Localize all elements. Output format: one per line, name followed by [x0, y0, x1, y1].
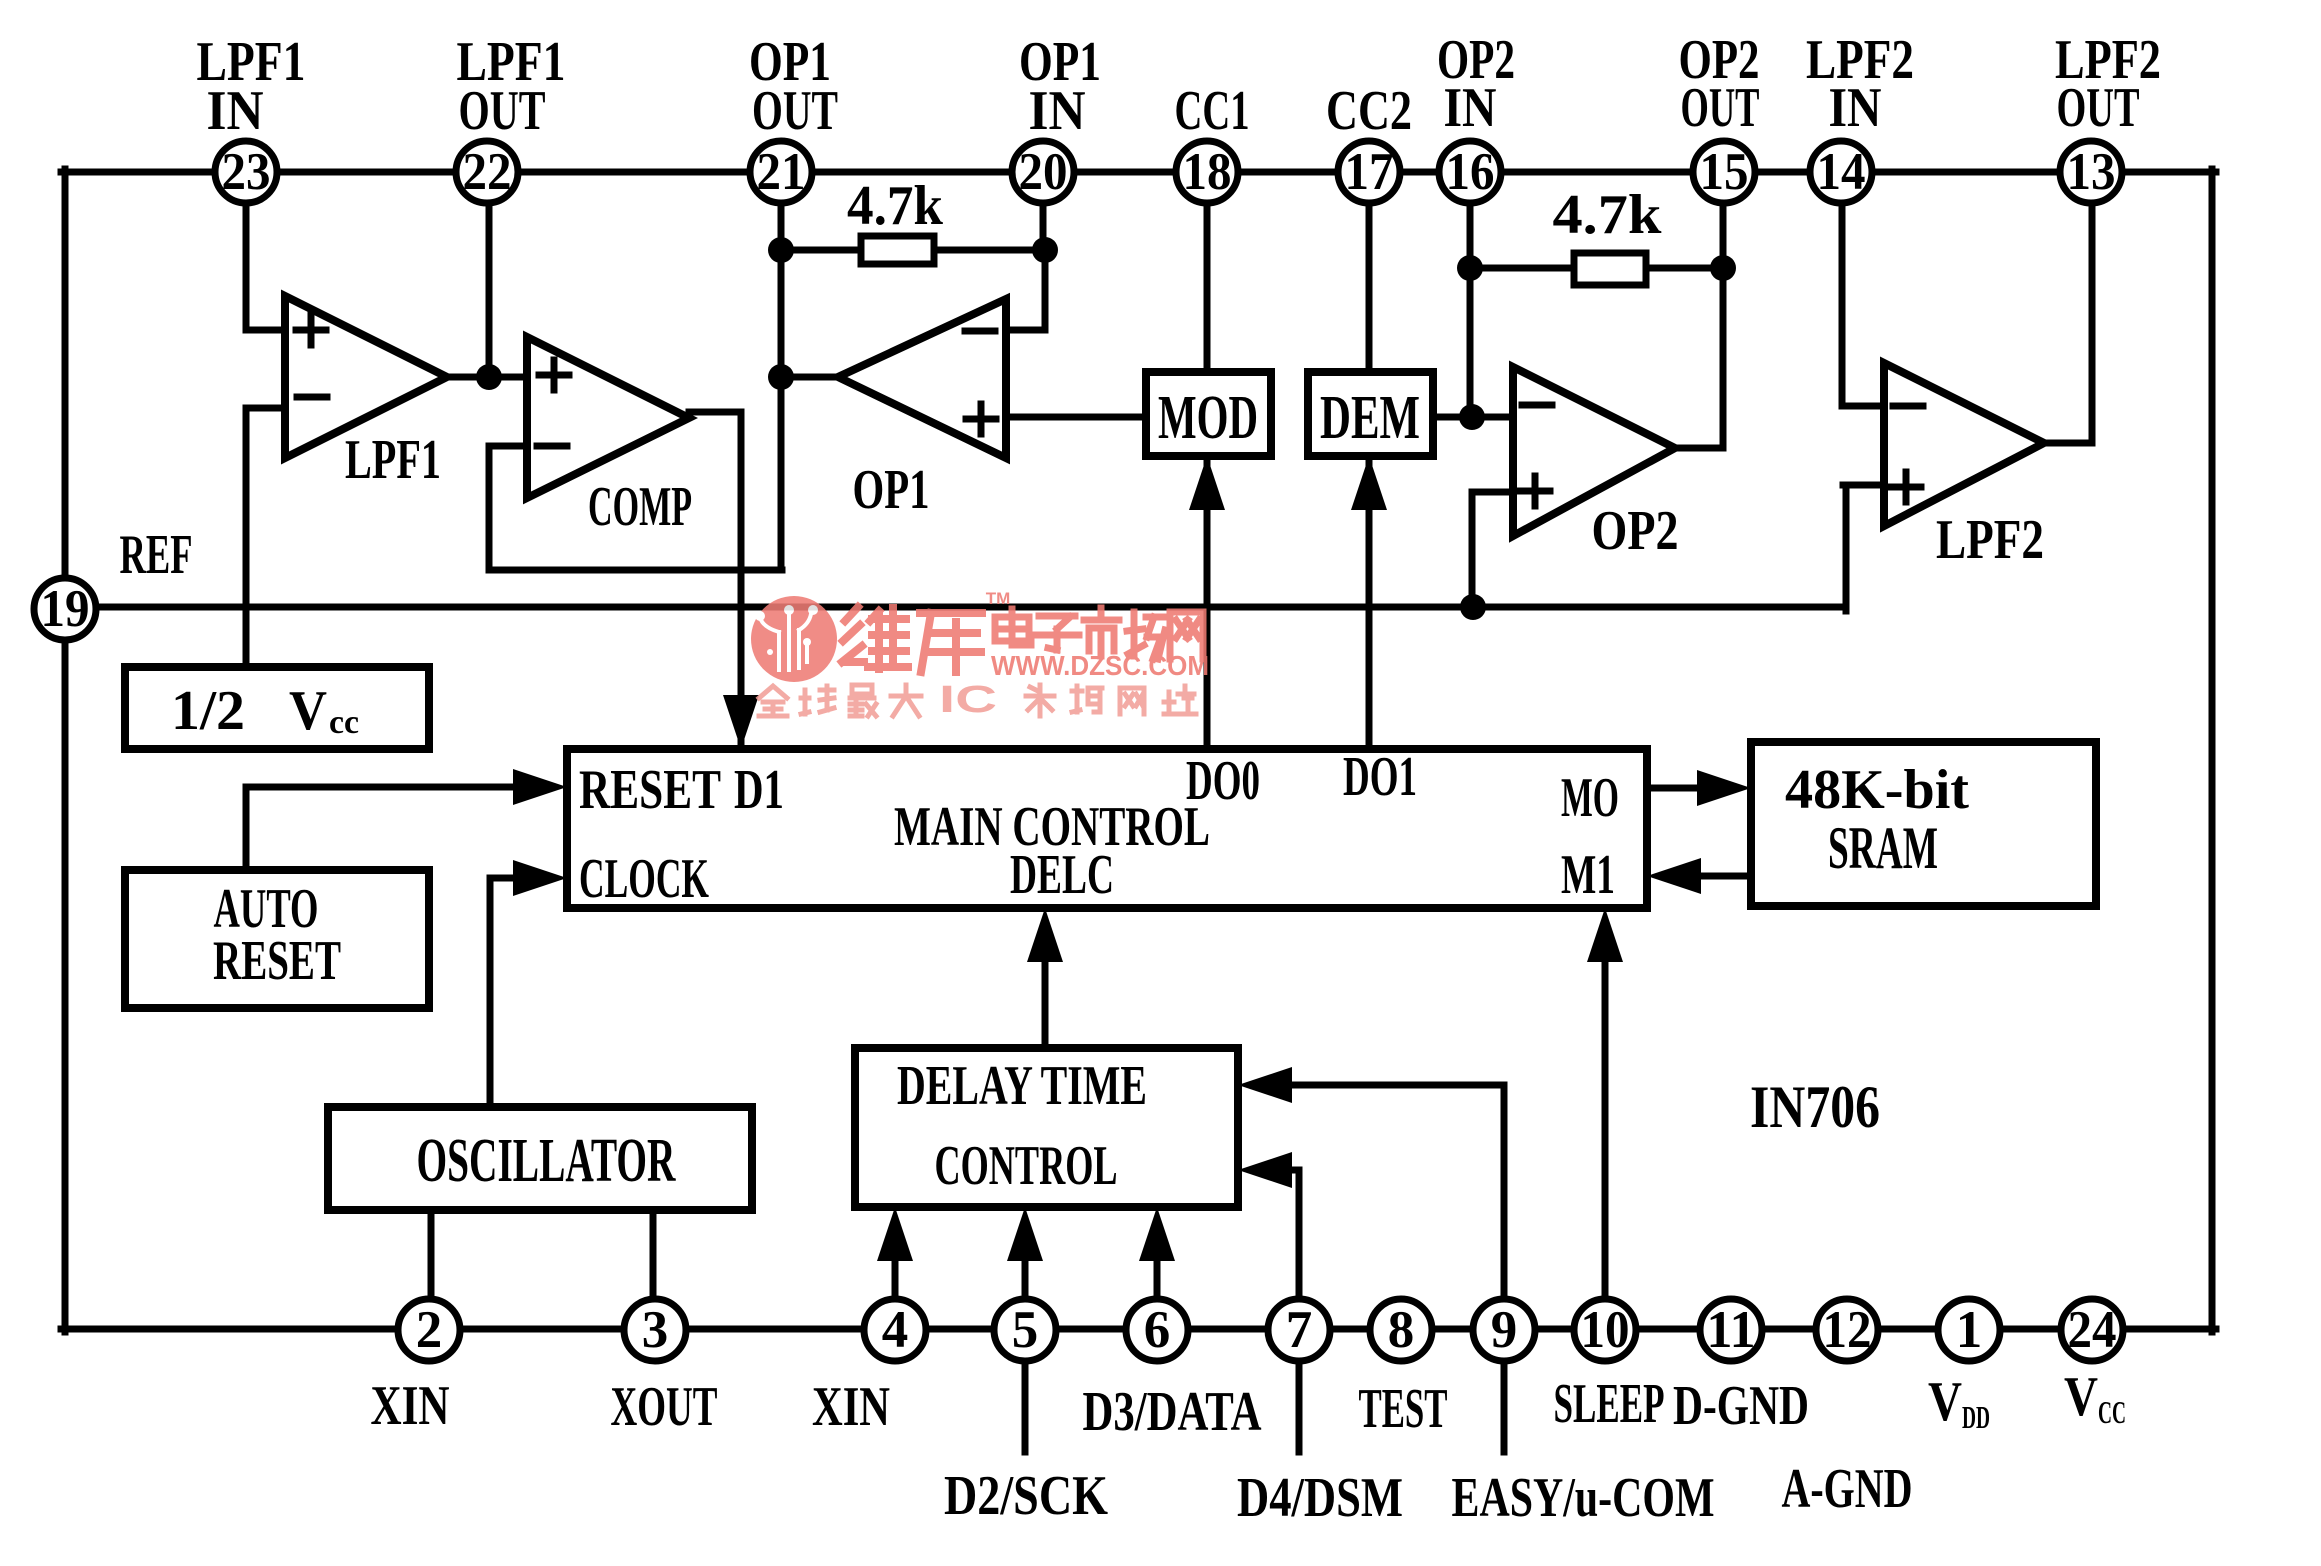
block MAIN CONTROL DELC [567, 749, 1647, 908]
svg-text:OUT: OUT [752, 80, 838, 142]
arrowhead into MOD [1189, 456, 1225, 510]
wire OSCILLATOR to pin 2 [428, 1210, 435, 1301]
wire 4.7k R1 right lead [934, 247, 1045, 254]
svg-text:18: 18 [1183, 143, 1232, 201]
svg-text:8: 8 [1388, 1301, 1415, 1359]
wire AUTO RESET riser [243, 787, 250, 870]
svg-text:M1: M1 [1561, 844, 1615, 906]
svg-text:19: 19 [41, 580, 90, 638]
block 48K-bit SRAM [1751, 742, 2096, 906]
svg-text:CLOCK: CLOCK [579, 848, 709, 910]
wire OP1 - input step [1006, 327, 1045, 334]
LPF2 - input sign [1893, 403, 1923, 410]
wire MOD to MAIN CONTROL DO0 [1204, 456, 1211, 749]
wire MAIN CONTROL M0 to SRAM [1647, 785, 1712, 792]
wire DEM output to OP2 - input [1433, 414, 1513, 421]
wire REF rail riser to LPF2 + [1843, 485, 1850, 611]
wire pin 18 stub down to MOD [1204, 202, 1211, 372]
node R1 right junction [1032, 237, 1058, 263]
node DEM output junction [1459, 404, 1485, 430]
LPF1 - input sign [297, 394, 327, 401]
svg-text:11: 11 [1707, 1301, 1756, 1359]
wire COMP output down to MAIN CONTROL [738, 412, 745, 745]
watermark logo circle [751, 596, 837, 682]
block OSCILLATOR [328, 1107, 752, 1210]
wire top rail pins 23-13 [61, 169, 2216, 176]
wire pin 21 stub down through OP1 output node [778, 202, 785, 570]
LPF2 + input sign [1891, 484, 1921, 491]
svg-text:6: 6 [1144, 1301, 1171, 1359]
watermark char dian [995, 609, 1031, 645]
wire COMP output right [689, 409, 741, 416]
svg-text:12: 12 [1823, 1301, 1872, 1359]
svg-text:LPF2: LPF2 [1936, 509, 2044, 571]
wire pin 15 stub down to OP2 output [1720, 202, 1727, 448]
svg-text:CC1: CC1 [1175, 80, 1250, 142]
wire AUTO RESET to RESET input [246, 784, 530, 791]
pin 16 [1439, 141, 1501, 203]
svg-text:2: 2 [416, 1301, 443, 1359]
wire OP1 + input to MOD [1006, 414, 1146, 421]
pin 1 [1938, 1299, 2000, 1361]
svg-text:D1: D1 [734, 759, 784, 821]
svg-text:XOUT: XOUT [611, 1376, 718, 1438]
node R2 left junction [1457, 255, 1483, 281]
svg-text:LPF1: LPF1 [345, 429, 441, 491]
op-amp OP2 [1513, 367, 1675, 536]
svg-text:10: 10 [1581, 1301, 1630, 1359]
arrowhead pin 9 into DELAY TIME right [1238, 1067, 1292, 1103]
svg-text:cc: cc [329, 704, 359, 741]
svg-text:4: 4 [882, 1301, 909, 1359]
svg-text:IN: IN [1829, 77, 1882, 139]
block DEM [1308, 372, 1433, 456]
svg-text:V: V [1928, 1371, 1962, 1433]
wire pin 7 stub down D4/DSM [1296, 1360, 1303, 1452]
svg-text:D2/SCK: D2/SCK [944, 1465, 1108, 1527]
wire SRAM to MAIN CONTROL M1 [1688, 873, 1751, 880]
svg-text:24: 24 [2068, 1301, 2117, 1359]
svg-text:OP1: OP1 [853, 459, 930, 521]
svg-text:DO1: DO1 [1343, 746, 1417, 808]
svg-text:20: 20 [1019, 143, 1068, 201]
wire pin 5 up to DELAY TIME [1022, 1250, 1029, 1300]
resistor R2 4.7k body [1574, 253, 1646, 285]
svg-text:DELAY TIME: DELAY TIME [897, 1055, 1147, 1117]
wire pin 22 stub down to LPF1 output node [486, 202, 493, 377]
watermark char chang [1127, 612, 1165, 659]
svg-text:V: V [2064, 1366, 2098, 1428]
node LPF1 output junction [476, 364, 502, 390]
pin 9 [1473, 1299, 1535, 1361]
pin 4 [864, 1299, 926, 1361]
wire LPF1 output to COMP + input [447, 374, 527, 381]
svg-text:XIN: XIN [371, 1375, 450, 1437]
wire OSCILLATOR to pin 3 [650, 1210, 657, 1301]
resistor R1 4.7k body [861, 236, 934, 264]
op-amp COMP [527, 337, 689, 498]
wire pin 6 up to DELAY TIME [1154, 1250, 1161, 1300]
wire step to LPF1 + input [246, 327, 285, 334]
pin 22 [456, 141, 518, 203]
svg-text:IN: IN [1444, 77, 1497, 139]
wire OP1 - input riser [1042, 250, 1049, 330]
wire pin 10 up to MAIN CONTROL M1 [1602, 950, 1609, 1300]
OP2 + input sign [1520, 488, 1550, 495]
watermark char shi [1084, 608, 1119, 656]
wire COMP feedback bottom [489, 567, 782, 574]
svg-text:3: 3 [642, 1301, 669, 1359]
pin 20 [1012, 141, 1074, 203]
svg-text:D4/DSM: D4/DSM [1237, 1467, 1403, 1529]
svg-text:RESET: RESET [213, 930, 341, 992]
COMP - input sign [537, 443, 567, 450]
COMP + input sign [539, 372, 569, 379]
svg-text:TEST: TEST [1359, 1378, 1448, 1440]
pin 6 [1126, 1299, 1188, 1361]
wire COMP - feedback left [489, 443, 527, 450]
svg-text:SLEEP: SLEEP [1554, 1373, 1665, 1435]
svg-text:OUT: OUT [1681, 77, 1760, 139]
svg-text:1: 1 [1956, 1301, 1983, 1359]
svg-text:OP2: OP2 [1592, 500, 1679, 562]
arrowhead M0 into SRAM [1697, 770, 1751, 806]
arrowhead into DEM [1351, 456, 1387, 510]
svg-text:4.7k: 4.7k [1553, 184, 1663, 246]
svg-text:IN706: IN706 [1750, 1074, 1880, 1140]
arrowhead pin 7 into DELAY TIME right [1238, 1152, 1292, 1188]
svg-text:23: 23 [222, 143, 271, 201]
node R1 left junction [768, 237, 794, 263]
wire to CLOCK input [490, 875, 530, 882]
wire 4.7k R2 right lead [1646, 265, 1723, 272]
svg-text:9: 9 [1491, 1301, 1518, 1359]
svg-text:48K-bit: 48K-bit [1785, 759, 1969, 821]
wire LPF1 - down to half-Vcc [243, 408, 250, 667]
svg-text:13: 13 [2067, 143, 2116, 201]
svg-text:SRAM: SRAM [1828, 815, 1938, 881]
wire pin 9 riser [1501, 1085, 1508, 1300]
LPF1 + input sign [296, 327, 326, 334]
svg-text:DELC: DELC [1010, 844, 1114, 906]
pin 10 [1574, 1299, 1636, 1361]
wire OP1 output to node [781, 374, 838, 381]
svg-text:IC: IC [939, 679, 997, 721]
watermark row quan qiu zui da IC cai gou wang zhan [759, 685, 921, 716]
op-amp LPF2 [1884, 363, 2044, 526]
arrowhead into CLOCK [513, 860, 567, 896]
pin 3 [624, 1299, 686, 1361]
wire LPF1 - input step [246, 405, 285, 412]
wire left border [62, 169, 69, 1332]
svg-text:15: 15 [1700, 143, 1749, 201]
svg-text:CC: CC [2098, 1394, 2126, 1430]
arrowhead pin 5 into DELAY TIME [1007, 1207, 1043, 1261]
pin 19 [34, 578, 96, 640]
block DELAY TIME CONTROL [855, 1048, 1238, 1207]
pin 15 [1693, 141, 1755, 203]
svg-text:REF: REF [120, 524, 193, 586]
svg-text:7: 7 [1286, 1301, 1313, 1359]
svg-text:5: 5 [1012, 1301, 1039, 1359]
arrowhead pin 10 into MAIN CONTROL M1 [1587, 908, 1623, 962]
wire DEM to MAIN CONTROL DO1 [1366, 456, 1373, 749]
node R2 right junction [1710, 255, 1736, 281]
watermark char ku [920, 613, 982, 672]
wire OP2 + input step [1472, 489, 1513, 496]
wire pin 9 to DELAY TIME top input [1280, 1082, 1504, 1089]
svg-text:MO: MO [1561, 767, 1619, 829]
arrowhead pin 6 into DELAY TIME [1139, 1207, 1175, 1261]
node OP1 output junction [768, 364, 794, 390]
OP2 - input sign [1522, 402, 1552, 409]
block 1/2 Vcc [125, 667, 429, 749]
svg-text:17: 17 [1345, 143, 1394, 201]
wire OP2 output right [1675, 445, 1723, 452]
pin 21 [750, 141, 812, 203]
svg-text:IN: IN [1029, 80, 1086, 142]
wire pin 7 to DELAY TIME right input [1280, 1167, 1299, 1174]
svg-text:21: 21 [757, 143, 806, 201]
svg-text:COMP: COMP [588, 476, 692, 538]
watermark char wang [1170, 612, 1203, 659]
wire LPF2 output right [2044, 440, 2092, 447]
svg-text:A-GND: A-GND [1782, 1458, 1913, 1520]
svg-text:D-GND: D-GND [1673, 1375, 1809, 1437]
svg-text:MOD: MOD [1158, 384, 1258, 452]
svg-text:22: 22 [463, 143, 512, 201]
pin 12 [1816, 1299, 1878, 1361]
wire pin 13 stub down to LPF2 output [2089, 200, 2096, 443]
wire REF rail from pin 19 [65, 604, 1846, 611]
op-amp OP1 (mirrored) [838, 299, 1006, 458]
svg-text:XIN: XIN [812, 1376, 890, 1438]
block MOD [1146, 372, 1271, 456]
svg-text:DD: DD [1962, 1399, 1990, 1435]
pin 5 [994, 1299, 1056, 1361]
wire LPF2 - input step [1842, 403, 1884, 410]
pin 7 [1268, 1299, 1330, 1361]
svg-text:4.7k: 4.7k [847, 175, 944, 237]
svg-text:RESET: RESET [579, 759, 721, 821]
svg-text:WWW.DZSC.COM: WWW.DZSC.COM [991, 650, 1209, 681]
wire REF rail to LPF2 + input [1843, 482, 1884, 489]
pin 18 [1176, 141, 1238, 203]
arrowhead pin 4 into DELAY TIME [877, 1207, 913, 1261]
svg-text:D3/DATA: D3/DATA [1083, 1381, 1262, 1443]
block AUTO RESET [125, 870, 429, 1008]
svg-text:EASY/u-COM: EASY/u-COM [1452, 1467, 1715, 1529]
arrowhead COMP output into MAIN CONTROL [723, 695, 759, 749]
wire DELAY TIME up to MAIN CONTROL DELC [1042, 950, 1049, 1048]
watermark char zi [1035, 616, 1079, 650]
wire pin 7 riser [1296, 1170, 1303, 1300]
pin 17 [1338, 141, 1400, 203]
wire right border [2209, 169, 2216, 1332]
pin 14 [1810, 141, 1872, 203]
wire OSCILLATOR riser to CLOCK [487, 878, 494, 1107]
svg-text:14: 14 [1817, 143, 1866, 201]
svg-text:TM: TM [986, 589, 1011, 608]
pin 23 [215, 141, 277, 203]
wire pin 23 stub down [243, 202, 250, 330]
wire bottom rail pins 2-24 [61, 1326, 2216, 1333]
wire pin 5 stub down D2/SCK [1022, 1360, 1029, 1452]
OP1 + input sign [966, 416, 996, 423]
arrowhead DELAY TIME into MAIN CONTROL [1027, 908, 1063, 962]
wire pin 16 stub down [1467, 202, 1474, 417]
watermark char wei [842, 607, 908, 669]
wire 4.7k R1 left lead [781, 247, 861, 254]
pin 13 [2060, 141, 2122, 203]
OP1 - input sign [965, 328, 995, 335]
wire OP2 + input down to REF rail [1469, 492, 1476, 607]
svg-text:CC2: CC2 [1326, 80, 1412, 142]
wire pin 14 stub down [1839, 202, 1846, 406]
svg-text:DEM: DEM [1320, 384, 1420, 452]
wire pin 9 stub down EASY/u-COM [1501, 1360, 1508, 1452]
svg-text:OUT: OUT [2057, 77, 2140, 139]
wire pin 17 stub down to DEM [1366, 202, 1373, 372]
node OP2 + REF rail junction [1460, 594, 1486, 620]
svg-text:OSCILLATOR: OSCILLATOR [417, 1127, 677, 1195]
wire COMP - feedback down [486, 446, 493, 570]
wire pin 4 up to DELAY TIME [892, 1250, 899, 1300]
pin 11 [1700, 1299, 1762, 1361]
arrowhead into RESET [513, 769, 567, 805]
svg-text:CONTROL: CONTROL [935, 1135, 1118, 1197]
svg-text:IN: IN [207, 80, 264, 142]
wire 4.7k R2 left lead [1470, 265, 1574, 272]
pin 8 [1370, 1299, 1432, 1361]
pin 2 [398, 1299, 460, 1361]
pin 24 [2061, 1299, 2123, 1361]
op-amp LPF1 [285, 296, 447, 458]
arrowhead M1 into MAIN CONTROL [1647, 858, 1701, 894]
svg-text:16: 16 [1446, 143, 1495, 201]
wire pin 20 stub down [1040, 202, 1047, 250]
svg-text:OUT: OUT [459, 80, 546, 142]
svg-text:1/2: 1/2 [171, 680, 245, 742]
svg-text:V: V [289, 680, 327, 742]
